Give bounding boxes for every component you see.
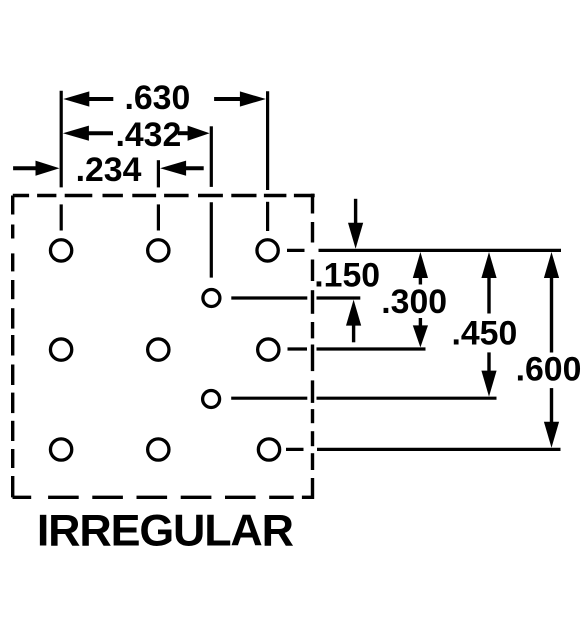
extension line col2 [157,160,160,230]
svg-text:.150: .150 [314,256,380,294]
dimension .450 down arrow [481,352,496,396]
pin circle row3 col1 [50,439,71,460]
extension line col1 [60,91,63,231]
svg-text:.432: .432 [116,116,182,154]
dimension .630 left arrow [63,91,113,106]
svg-text:.600: .600 [516,351,582,389]
leader line row1 [287,249,561,252]
pin circle row1 col1 [50,240,71,261]
leader line lower small pin [231,397,496,400]
dimension .300 down arrow [413,318,428,347]
dimension .450 up arrow [481,252,496,314]
svg-text:.234: .234 [76,151,142,189]
dimension .600 up arrow [544,252,559,353]
pin circle row1 col3 [257,240,278,261]
svg-text:IRREGULAR: IRREGULAR [37,506,294,556]
pin circle row2 col2 [148,339,169,360]
dimension .600 down arrow [544,388,559,448]
small pin circle upper [203,290,220,307]
component outline dashed left edge [11,196,14,498]
pin circle row1 col2 [148,240,169,261]
pin circle row2 col1 [50,339,71,360]
dimension .432 left arrow [63,126,113,141]
dimension .630 right arrow [214,91,266,106]
pin circle row2 col3 [258,339,279,360]
leader line row2 [288,347,426,350]
pin circle row3 col3 [258,439,279,460]
dimension .150 bottom arrow [346,300,361,343]
extension line small-pin column [210,126,213,277]
svg-text:.300: .300 [381,283,447,321]
extension line col3 [266,91,269,231]
leader line upper small pin [231,296,360,299]
component outline dashed bottom edge [13,496,315,499]
dimension .234 outside arrow left [13,161,59,176]
svg-text:.630: .630 [125,79,191,117]
component outline dashed right edge [311,194,314,499]
svg-text:.450: .450 [452,315,518,353]
dimension .150 top arrow [348,199,363,249]
dimension .234 right arrow [160,161,204,176]
leader line row3 [286,448,561,451]
dimension .432 right arrow [178,126,210,141]
component outline dashed top edge [13,194,315,197]
small pin circle lower [203,391,220,408]
dimension .300 up arrow [413,252,428,285]
pin circle row3 col2 [148,439,169,460]
